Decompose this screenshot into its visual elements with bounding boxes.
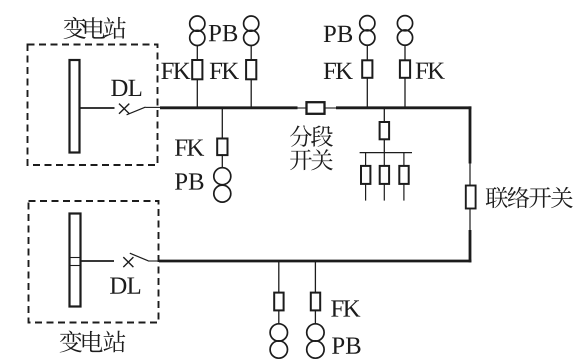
label PB bottom branches <box>332 337 360 353</box>
distribution transformer PB branch 4 <box>397 16 412 31</box>
wire PB4 to FK4 <box>404 45 406 61</box>
label FK branch 3 <box>324 63 353 79</box>
tie line upper thin segment <box>469 163 471 186</box>
wire into sectionalizer <box>297 107 308 109</box>
label 开关 (switch) <box>290 149 333 170</box>
label 变电站 (top substation) <box>64 17 126 39</box>
distribution transformer PB branch 1 <box>190 16 205 31</box>
wire busbar to breaker DL (bottom) <box>81 260 115 262</box>
tail wire 1 <box>365 184 367 201</box>
busbar tick 1 <box>70 257 80 259</box>
fuse FK branch 2 <box>246 60 256 79</box>
sectionalizing switch (分段开关) <box>307 102 325 114</box>
fuse drop 3 <box>399 166 408 184</box>
label DL bottom breaker <box>110 277 140 293</box>
label FK branch 2 <box>210 63 239 79</box>
drop wire 3 <box>403 153 405 167</box>
fuse drop 1 <box>361 166 370 184</box>
wire FK1 to feeder <box>196 79 198 108</box>
busbar top substation <box>70 60 80 153</box>
label FK branch 1 <box>161 63 190 79</box>
distribution bar <box>360 152 412 154</box>
wire FK4 to feeder <box>404 78 406 108</box>
disconnector blade top <box>127 107 146 115</box>
switch on middle branch <box>380 122 390 139</box>
distribution transformer PB branch 3 <box>360 16 375 31</box>
top feeder wire right segment <box>336 106 471 109</box>
label 变电站 (bottom substation) <box>60 330 126 352</box>
tie line upper thick segment <box>469 106 472 163</box>
wire PB2 to FK2 <box>250 46 252 61</box>
label 联络开关 (tie switch) <box>486 187 573 208</box>
drop wire 2 <box>383 153 385 167</box>
tail wire 2 <box>383 184 385 201</box>
fuse FK branch 7 <box>311 293 320 311</box>
disconnector blade bottom <box>130 253 148 261</box>
label FK branch 4 <box>416 63 445 79</box>
drop wire 1 <box>365 153 367 167</box>
wire FK3 to feeder <box>366 78 368 108</box>
breaker DL top (x symbol) <box>119 104 129 114</box>
wire feeder down to branch switch <box>383 108 385 123</box>
tail wire 3 <box>403 184 405 201</box>
fuse drop 2 <box>380 166 389 184</box>
wire PB3 to FK3 <box>366 45 368 61</box>
wire FK6 to PB6 <box>278 310 280 324</box>
tie line lower thick segment <box>469 230 472 262</box>
substation box top (dashed) <box>28 45 158 166</box>
wire busbar to breaker DL (top) <box>80 107 115 109</box>
wire FK5 to PB5 <box>221 155 223 168</box>
label FK branch 5 <box>175 139 204 155</box>
distribution transformer PB branch 7 <box>307 324 324 341</box>
wire PB1 to FK1 <box>196 46 198 61</box>
label PB branch 5 <box>175 173 203 189</box>
wire out of sectionalizer <box>325 107 338 109</box>
wire FK2 to feeder <box>250 79 252 108</box>
tie line lower thin segment <box>469 209 471 232</box>
distribution transformer PB branch 6 <box>270 324 287 341</box>
bottom feeder wire <box>159 260 471 263</box>
label DL top breaker <box>111 80 141 96</box>
wire switch to distribution bar <box>383 139 385 152</box>
label PB branch 1 <box>209 25 237 41</box>
tie switch (联络开关) <box>466 186 476 209</box>
label PB branch 3 <box>324 26 352 42</box>
wire feeder down to FK5 <box>221 108 223 139</box>
distribution transformer PB branch 5 <box>214 168 231 185</box>
wire bottom feeder down to FK7 <box>314 261 316 293</box>
top feeder wire left segment <box>160 106 298 109</box>
wire FK7 to PB7 <box>314 310 316 324</box>
wire blade to feeder <box>146 106 162 108</box>
fuse FK branch 6 <box>274 293 283 311</box>
fuse FK branch 5 (below feeder) <box>217 139 227 156</box>
breaker DL bottom (x symbol) <box>123 257 133 267</box>
label 分段 (sectionalizing) <box>290 125 333 146</box>
wire blade to bottom feeder <box>148 260 160 262</box>
fuse FK branch 1 <box>192 60 202 79</box>
fuse FK branch 4 <box>400 60 410 78</box>
label FK bottom branches <box>331 300 360 316</box>
busbar tick 2 <box>70 265 80 267</box>
wire bottom feeder down to FK6 <box>278 261 280 293</box>
substation box bottom (dashed) <box>29 201 159 323</box>
busbar bottom substation <box>70 214 81 307</box>
distribution transformer PB branch 2 <box>244 16 259 31</box>
fuse FK branch 3 <box>362 60 372 78</box>
